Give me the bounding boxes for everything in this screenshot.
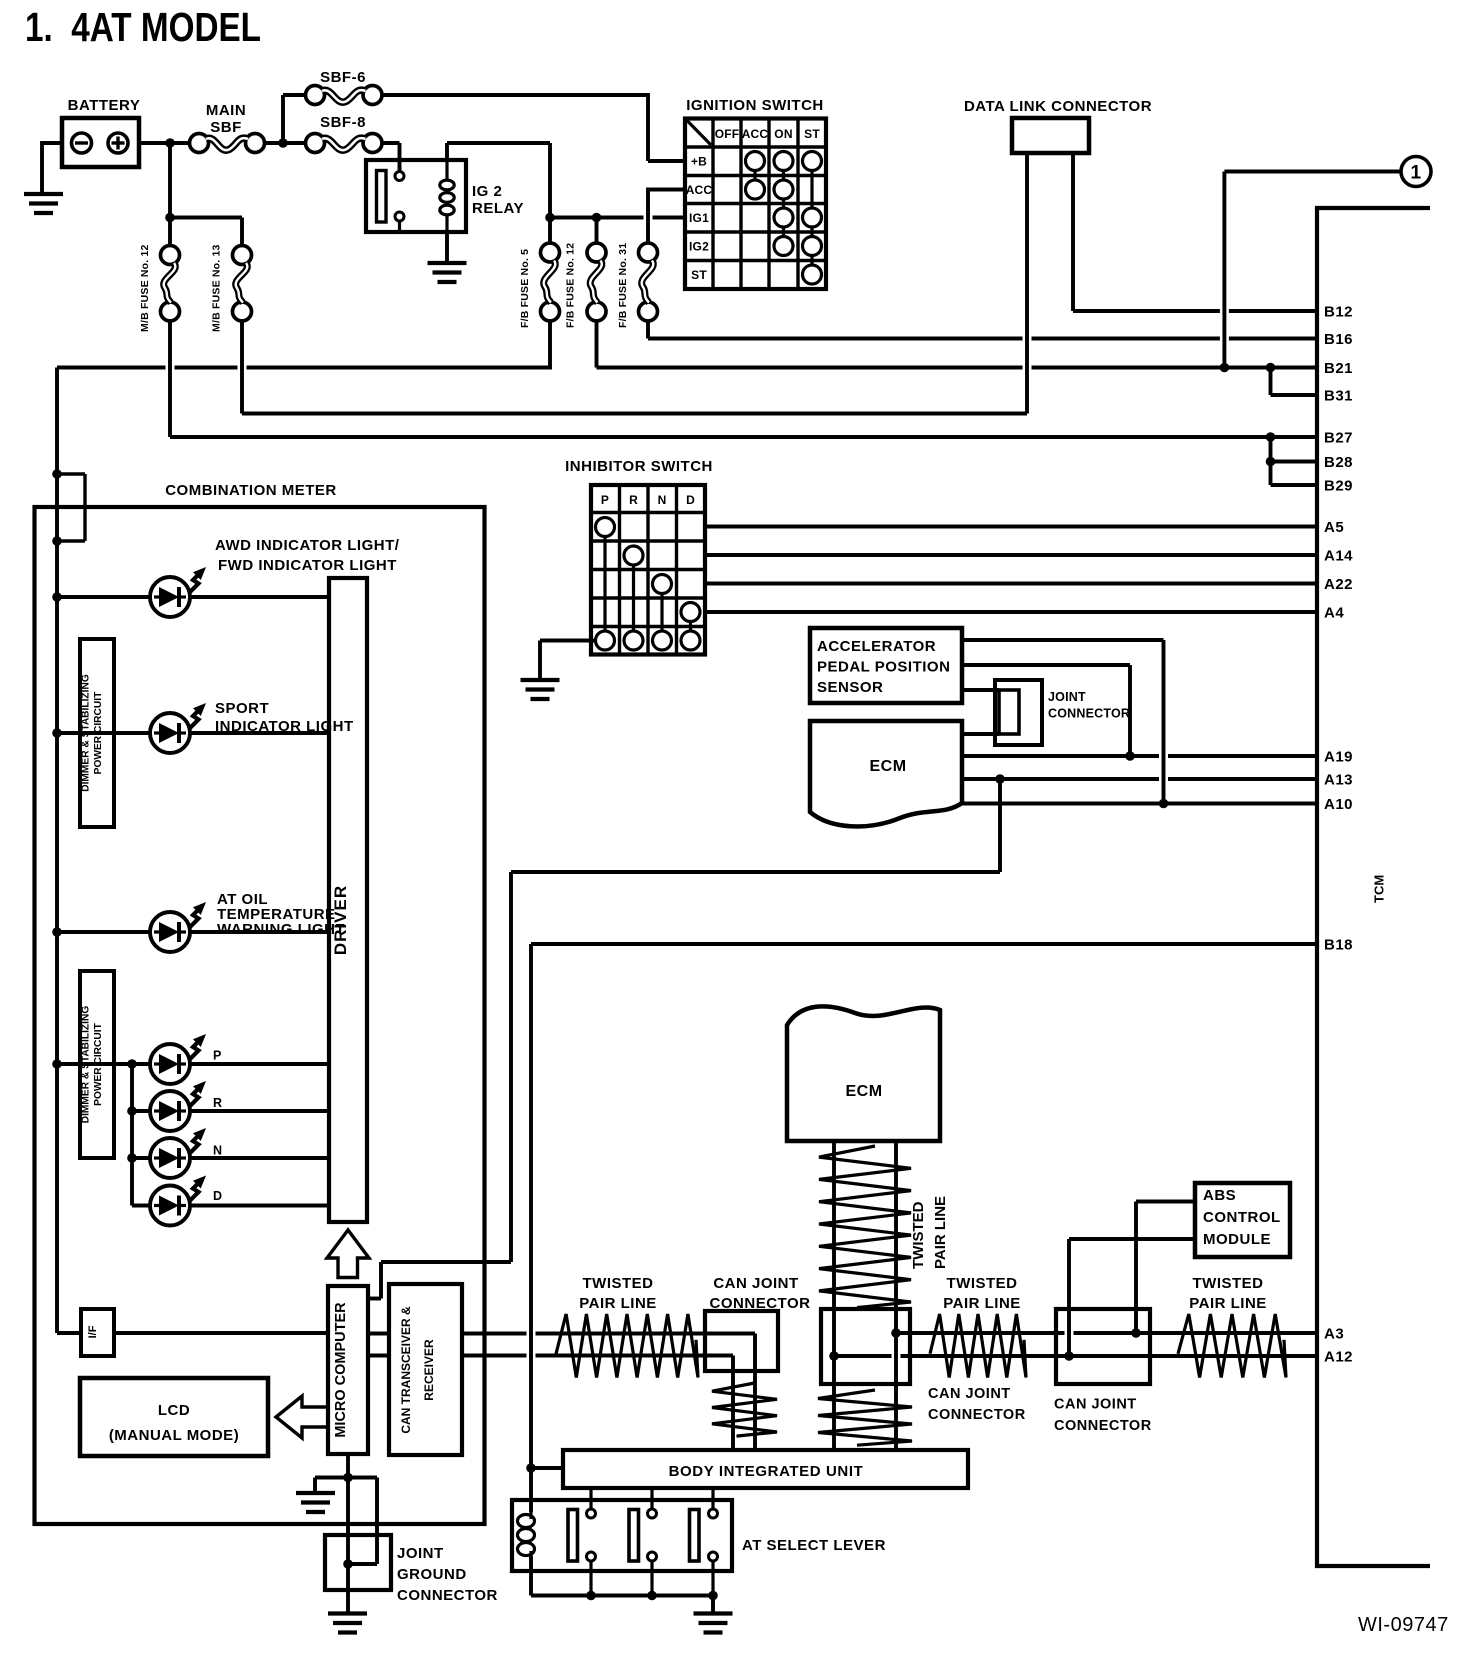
wire micro computer ground [346,1454,350,1614]
wire inhibitor R to TCM A14 [705,553,1317,557]
svg-text:IG2: IG2 [689,240,709,254]
wire ignition ACC row to F/B fuse No.31 [646,188,650,245]
svg-text:P: P [601,493,609,507]
svg-text:SBF-6: SBF-6 [320,69,366,86]
node B21/B31 junction [1266,363,1276,373]
svg-text:SBF: SBF [210,119,242,136]
arrow micro computer to LCD [276,1396,328,1438]
svg-text:B21: B21 [1324,360,1353,377]
wire to TCM B28 [1269,437,1273,462]
wire CAN H down to body integrated unit [753,1334,757,1451]
wire I/F to micro computer [114,1331,328,1335]
wire SBF-8 to relay contact [382,141,400,145]
node SBF branch junction [278,138,288,148]
svg-text:CONNECTOR: CONNECTOR [397,1587,498,1604]
svg-text:B18: B18 [1324,937,1353,954]
inhibitor contacts [596,518,615,537]
svg-text:COMBINATION METER: COMBINATION METER [165,482,337,499]
svg-text:SBF-8: SBF-8 [320,114,366,131]
svg-text:B28: B28 [1324,454,1353,471]
ground relay [428,261,467,265]
svg-text:F/B FUSE No. 5: F/B FUSE No. 5 [519,249,531,328]
svg-text:+B: +B [691,155,707,169]
wire CAN L down to body integrated unit [731,1356,735,1451]
twisted pair vertical below connector 1 [712,1383,777,1436]
ignition switch contacts [746,152,765,171]
relay contact [377,171,387,223]
wire TCM B18 to AT select lever [531,942,1317,946]
svg-text:LCD: LCD [158,1402,190,1419]
svg-text:ST: ST [804,127,820,141]
svg-text:TCM: TCM [1372,875,1387,903]
ignition header diagonal [687,121,711,146]
node B27 junction [1266,432,1276,442]
svg-text:CAN TRANSCEIVER &: CAN TRANSCEIVER & [399,1306,413,1434]
wire CAN H line [462,1332,527,1336]
wire CAN L line [462,1354,527,1358]
accelerator pedal position sensor [810,628,962,703]
AT select lever [512,1500,732,1571]
svg-text:ST: ST [691,268,707,282]
relay coil [445,160,448,179]
svg-text:ACC: ACC [742,127,769,141]
wire down to F/B fuse No.5 [548,218,552,245]
CAN joint connector 3 [1056,1309,1150,1384]
svg-text:M/B FUSE No. 13: M/B FUSE No. 13 [211,244,223,332]
svg-text:ECM: ECM [869,758,906,775]
driver [329,578,367,1222]
node circled 1 [1401,157,1431,187]
svg-text:ACC: ACC [686,183,713,197]
wire SBF-6 to ignition +B [382,93,648,97]
svg-text:WARNING LIGHT: WARNING LIGHT [217,921,345,938]
wire DLC right pin to TCM B12 [1071,153,1075,311]
wire LED to driver [190,595,329,599]
wire F/B No.5 to combination meter rail [57,366,166,370]
node junction F/B No.12 [592,213,602,223]
svg-text:RECEIVER: RECEIVER [422,1339,436,1401]
svg-text:PAIR LINE: PAIR LINE [943,1295,1021,1312]
svg-text:PAIR LINE: PAIR LINE [1189,1295,1267,1312]
svg-text:IG1: IG1 [689,211,709,225]
svg-text:TWISTED: TWISTED [910,1201,927,1269]
svg-text:A10: A10 [1324,796,1353,813]
svg-text:DATA LINK CONNECTOR: DATA LINK CONNECTOR [964,98,1152,115]
wire inhibitor P to TCM A5 [705,525,1317,529]
wire down to F/B fuse No.12 [595,218,599,245]
svg-text:A12: A12 [1324,1349,1353,1366]
LED P [150,1044,190,1084]
svg-text:1: 1 [1410,163,1421,184]
svg-text:DRIVER: DRIVER [331,885,350,955]
ECM 2 [787,1006,940,1141]
wire coil to common [529,1556,533,1596]
svg-text:TWISTED: TWISTED [583,1275,654,1292]
svg-text:B29: B29 [1324,478,1353,495]
node junction F/B No.5 [545,213,555,223]
wire battery to M/B fuses [168,143,172,246]
wire ECM to TCM A13 [962,777,1159,781]
svg-text:1. 4AT MODEL: 1. 4AT MODEL [25,4,261,50]
svg-text:FWD INDICATOR LIGHT: FWD INDICATOR LIGHT [218,557,397,574]
ground joint ground connector [328,1611,367,1615]
svg-text:AT SELECT LEVER: AT SELECT LEVER [742,1537,886,1554]
CAN joint connector 2 [821,1309,910,1384]
wire inhibitor D to TCM A4 [705,610,1317,614]
wire battery positive [139,141,190,145]
svg-text:TWISTED: TWISTED [947,1275,1018,1292]
LED R [150,1091,190,1131]
wire APPS-3 to joint connector [962,688,999,692]
wire ECM CAN H pin down through CAN joint connector 2 [894,1141,898,1450]
wire A3 from connector 2 [896,1331,1065,1335]
node battery junction [165,138,175,148]
wire circle 1 to B21 [1224,170,1401,174]
svg-text:PAIR LINE: PAIR LINE [932,1196,949,1269]
svg-text:CONNECTOR: CONNECTOR [1054,1418,1152,1434]
ground micro computer [296,1491,335,1495]
svg-text:R: R [629,493,638,507]
wire ECM CAN L pin down through CAN joint connector 2 [832,1141,836,1450]
svg-text:INHIBITOR SWITCH: INHIBITOR SWITCH [565,458,713,475]
wire IG1 row feed [550,216,644,220]
ECM [810,721,962,826]
contact bar at 689.5 [690,1510,700,1562]
svg-text:B31: B31 [1324,388,1353,405]
svg-text:A13: A13 [1324,772,1353,789]
svg-text:SPORT: SPORT [215,700,269,717]
svg-text:A5: A5 [1324,519,1344,536]
LCD box [80,1378,268,1456]
svg-text:F/B FUSE No. 31: F/B FUSE No. 31 [617,243,629,328]
I/F interface box [81,1309,114,1356]
wire A12 from connector 2 [834,1354,892,1358]
svg-text:F/B FUSE No. 12: F/B FUSE No. 12 [565,243,577,328]
wire APPS-1 to A10 junction [962,638,1164,642]
wire battery negative to ground [42,141,62,145]
svg-text:MAIN: MAIN [206,102,246,119]
svg-text:RELAY: RELAY [472,200,524,217]
svg-text:ON: ON [774,127,792,141]
body integrated unit [563,1450,968,1488]
wire inhibitor common to ground [540,639,596,643]
wire ABS to A3 [1136,1200,1195,1204]
svg-text:JOINT: JOINT [1048,690,1086,704]
wire ABS to A12 [1069,1237,1195,1241]
svg-text:CAN JOINT: CAN JOINT [713,1275,798,1292]
svg-text:D: D [213,1189,222,1203]
AT select coil [518,1515,535,1528]
svg-text:A19: A19 [1324,749,1353,766]
connector loop on meter rail [57,472,85,475]
wire to body integrated unit [531,1466,563,1470]
svg-text:(MANUAL MODE): (MANUAL MODE) [109,1427,239,1444]
twisted pair vertical below connector 2 [818,1390,912,1445]
wire APPS-2 to A19 junction [962,663,1130,667]
twisted pair vertical ECM [819,1146,911,1308]
svg-text:D: D [686,493,695,507]
wire F/B No.31 to TCM B16 [646,321,650,339]
wire MAIN SBF to SBF junction [264,141,306,145]
CAN transceiver & receiver [389,1284,462,1455]
svg-text:A14: A14 [1324,548,1353,565]
svg-text:PEDAL POSITION: PEDAL POSITION [817,659,950,676]
svg-text:JOINT: JOINT [397,1545,444,1562]
arrow micro computer to driver [327,1230,369,1278]
twisted pair zigzag left [556,1314,698,1378]
contact bar at 568 [568,1510,578,1562]
svg-text:CAN JOINT: CAN JOINT [928,1386,1011,1402]
P R N D LED branch [52,1059,62,1069]
svg-text:B16: B16 [1324,331,1353,348]
svg-text:CONTROL: CONTROL [1203,1209,1281,1226]
svg-text:IGNITION SWITCH: IGNITION SWITCH [686,97,824,114]
wire F/B No.12 to TCM B21 [595,321,599,368]
svg-text:CAN JOINT: CAN JOINT [1054,1397,1137,1413]
dimmer & stabilizing power circuit 2 [80,971,114,1158]
LED D [150,1186,190,1226]
wire inhibitor N to TCM A22 [705,582,1317,586]
svg-text:ACCELERATOR: ACCELERATOR [817,638,936,655]
svg-text:TWISTED: TWISTED [1193,1275,1264,1292]
svg-text:CONNECTOR: CONNECTOR [928,1407,1026,1423]
svg-text:A4: A4 [1324,605,1344,622]
node junction M/B fuses [165,213,175,223]
twisted pair zigzag right [1178,1314,1286,1378]
wire rail to I/F [55,1331,59,1333]
wire loop joint ground connector [348,1476,377,1480]
wire coil top to IG1 junction [445,143,449,162]
svg-text:R: R [213,1096,222,1110]
ground inhibitor [521,678,560,682]
wire relay coil to ground [445,232,449,263]
wire to TCM B31 [1269,368,1273,396]
wire to TCM B29 [1269,462,1273,486]
wire M/B No.12 to TCM B27 [168,321,172,438]
wire ECM to TCM A19 [962,754,1159,758]
svg-text:N: N [213,1144,222,1158]
svg-text:PAIR LINE: PAIR LINE [579,1295,657,1312]
svg-text:B12: B12 [1324,304,1353,321]
wire ECM to micro computer [998,779,1002,872]
contact bar at 629 [629,1510,639,1562]
wire M/B No.13 to data link connector [240,321,244,414]
svg-text:GROUND: GROUND [397,1566,467,1583]
twisted pair zigzag middle [930,1314,1026,1378]
wire micro computer to CAN transceiver (H) [368,1332,389,1336]
svg-text:P: P [213,1049,222,1063]
dimmer & stabilizing power circuit 1 [80,639,114,827]
svg-text:IG 2: IG 2 [472,183,502,200]
svg-text:BATTERY: BATTERY [68,97,141,114]
svg-text:SENSOR: SENSOR [817,679,883,696]
wire up to SBF-6 [281,95,285,145]
svg-text:OFF: OFF [715,127,740,141]
relay IG2 box [366,160,466,232]
svg-text:MODULE: MODULE [1203,1231,1271,1248]
svg-text:I/F: I/F [87,1325,99,1338]
svg-text:N: N [658,493,667,507]
TCM [1317,208,1430,1566]
wire ECM to TCM A10 [962,802,1317,806]
svg-text:AWD INDICATOR LIGHT/: AWD INDICATOR LIGHT/ [215,537,400,554]
joint ground connector [325,1535,391,1590]
wire micro computer to CAN transceiver (L) [368,1354,389,1358]
ground battery [24,192,63,196]
ABS control module [1195,1183,1290,1257]
svg-text:B27: B27 [1324,430,1353,447]
micro computer [328,1286,368,1454]
svg-text:MICRO COMPUTER: MICRO COMPUTER [333,1302,349,1438]
wire F/B No.5 to battery rail line [548,321,552,370]
ground AT select lever [711,1596,715,1613]
svg-text:M/B FUSE No. 12: M/B FUSE No. 12 [139,244,151,332]
svg-text:WI-09747: WI-09747 [1358,1614,1449,1636]
svg-text:BODY INTEGRATED UNIT: BODY INTEGRATED UNIT [669,1463,864,1480]
wire ECM to joint connector [962,732,999,736]
svg-text:ECM: ECM [845,1083,882,1100]
svg-text:A3: A3 [1324,1326,1344,1343]
svg-text:ABS: ABS [1203,1187,1236,1204]
svg-text:A22: A22 [1324,576,1353,593]
LED N [150,1138,190,1178]
svg-text:CONNECTOR: CONNECTOR [1048,707,1130,721]
